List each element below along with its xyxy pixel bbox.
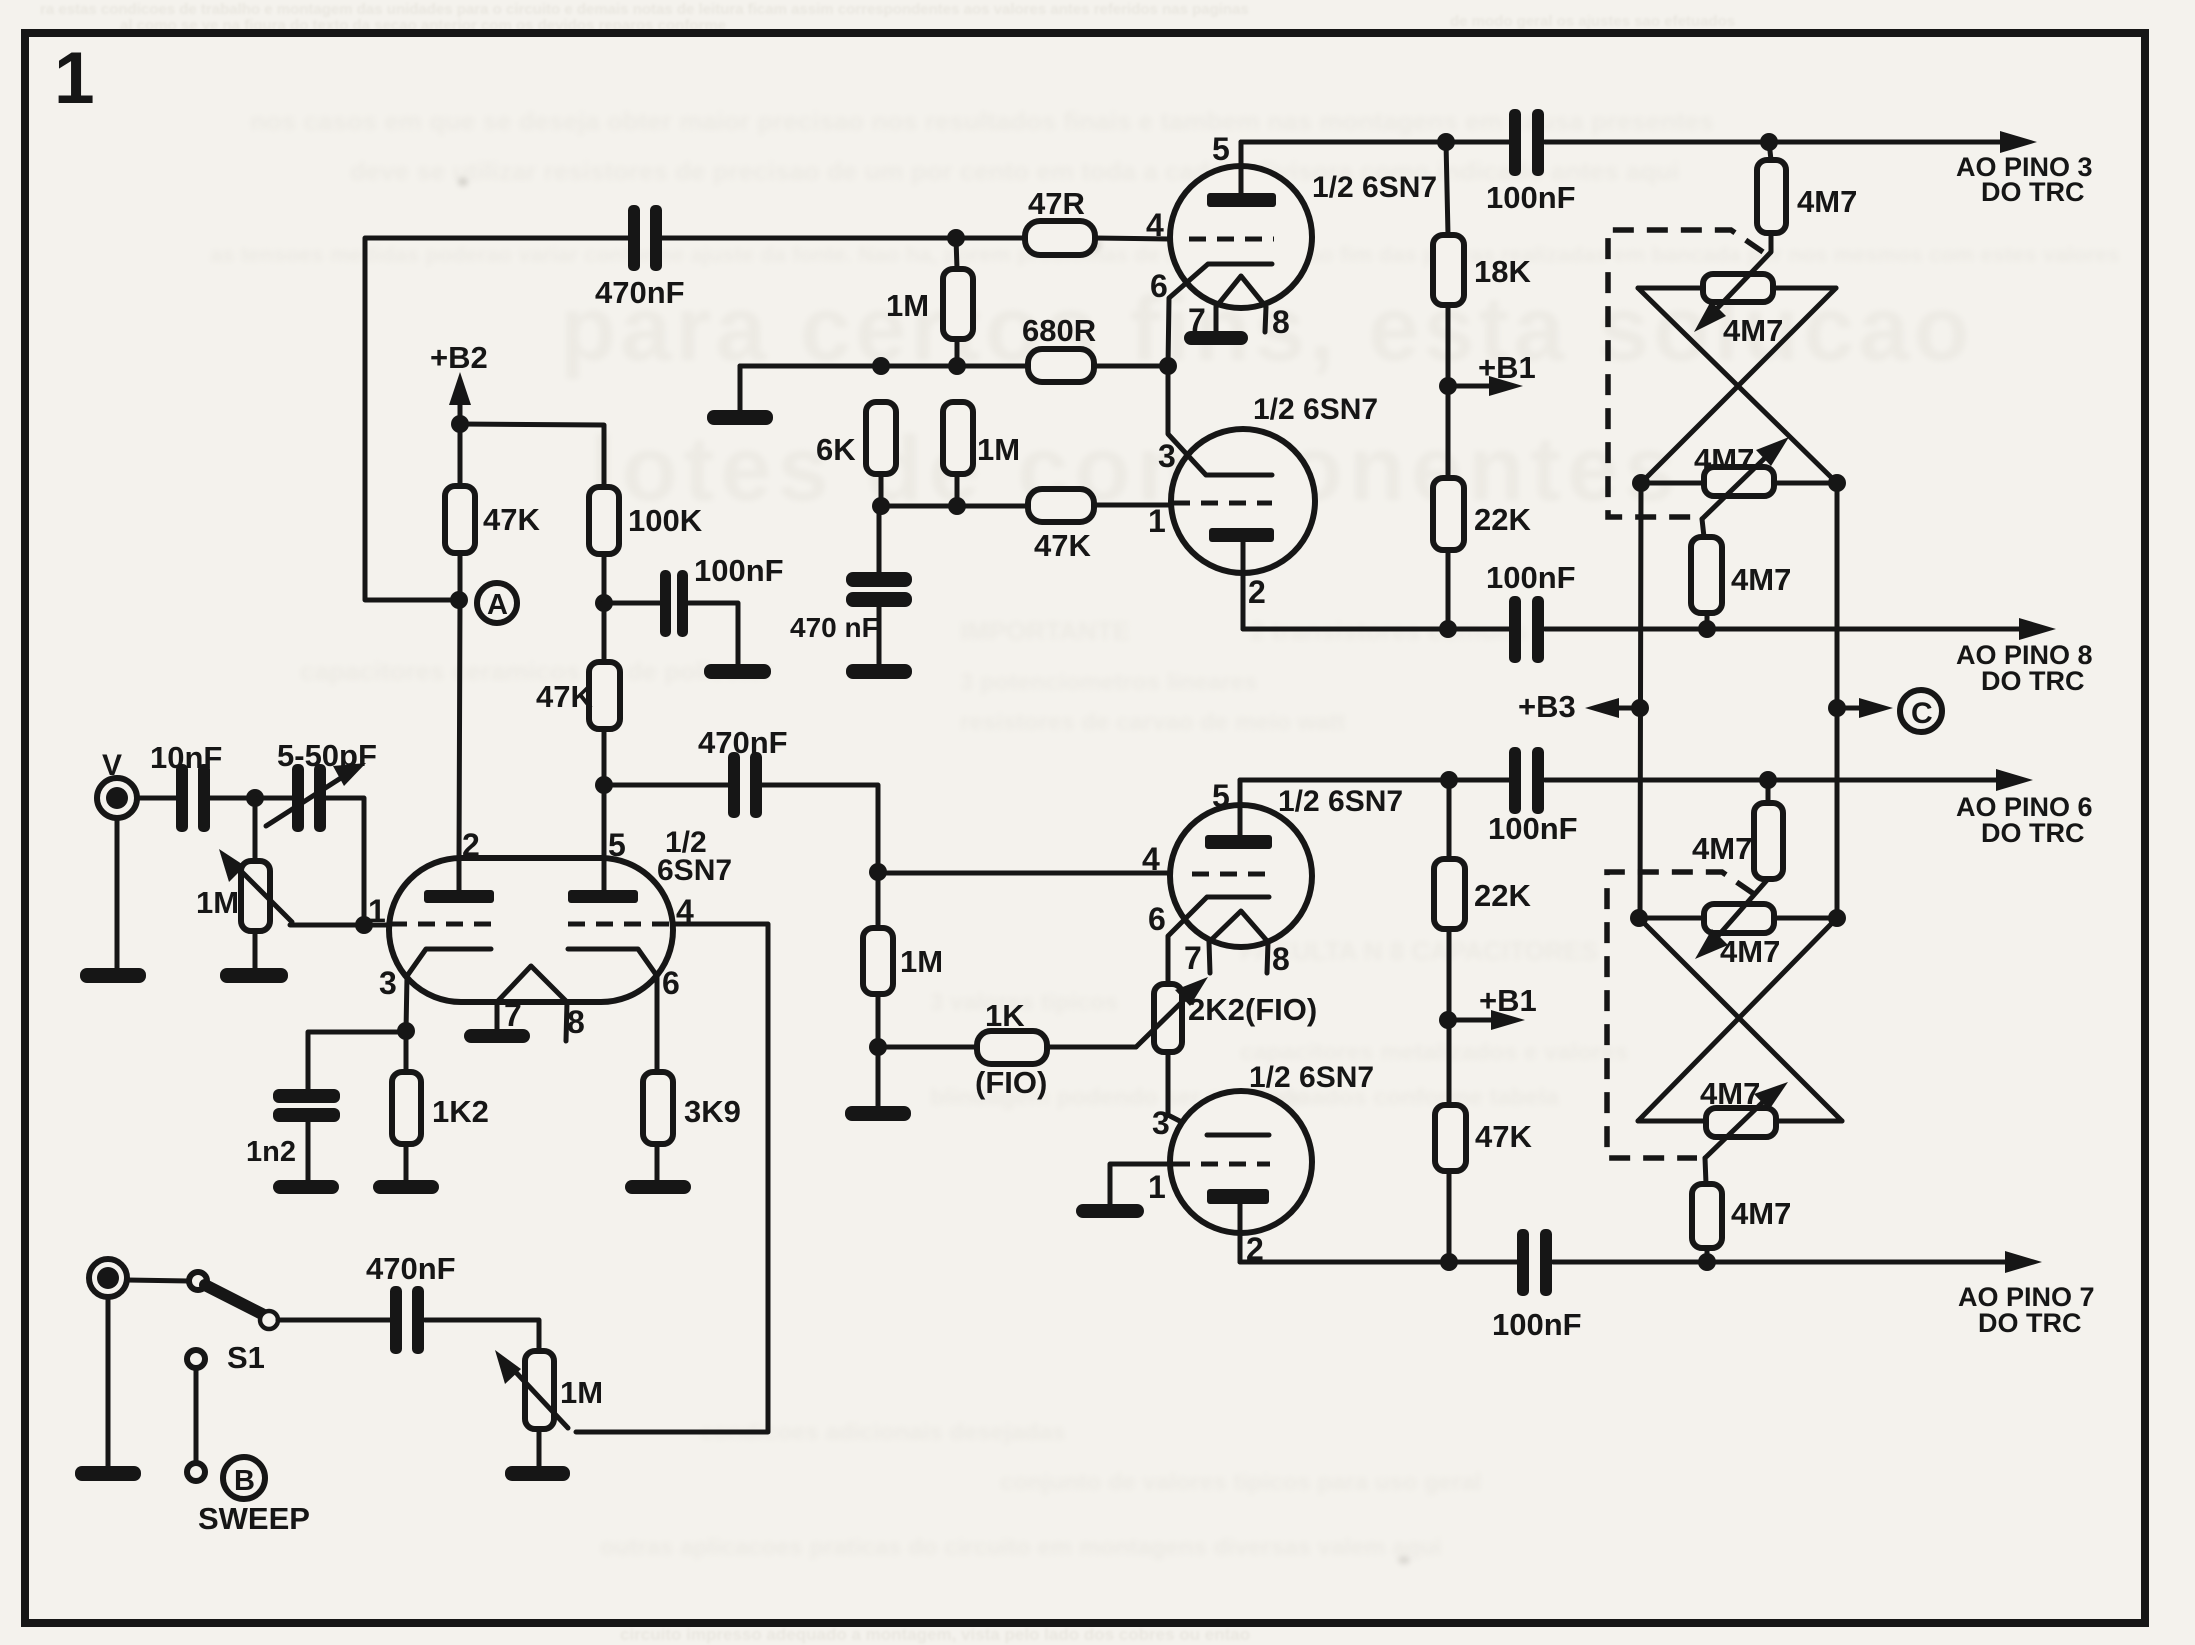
V1b grid (dashed): [1173, 501, 1272, 506]
wire: cap to output arrow pin6: [1545, 778, 1999, 783]
node junction X upper left: [1632, 474, 1650, 492]
svg-text:S1: S1: [227, 1340, 265, 1375]
svg-text:C: C: [1911, 697, 1933, 730]
wire: 22K to +B1 junction (lower): [1447, 929, 1452, 1020]
switch S1 lever: [205, 1285, 262, 1314]
V2a grid (dashed): [1192, 872, 1274, 877]
wire: 6K bottom lead: [879, 474, 884, 506]
wire: 1M bottom lead: [955, 474, 960, 506]
wire: connector to switch pivot: [127, 1280, 189, 1281]
node junction 4M7 bottom (upper network): [1698, 620, 1716, 638]
svg-text:100nF: 100nF: [1488, 811, 1578, 846]
wire: 1M to row junction: [955, 339, 960, 366]
wire: 1M upper lead: [956, 238, 957, 269]
V3 heater: [497, 966, 567, 1002]
ground (input pot): [220, 968, 288, 983]
node junction 470nF row: [595, 776, 613, 794]
connector V input: [97, 778, 137, 818]
node junction y506 left: [872, 497, 890, 515]
switch S1 moving contact: [260, 1311, 278, 1329]
node junction +B1 (upper): [1439, 377, 1457, 395]
wire: pin 4 feedback run: [576, 924, 768, 1432]
resistor 1K (F10): [977, 1031, 1047, 1064]
svg-text:6SN7: 6SN7: [657, 854, 732, 887]
node junction 18K top: [1437, 133, 1455, 151]
svg-text:100nF: 100nF: [1486, 560, 1576, 595]
wire: 22K to pin8 row: [1446, 550, 1451, 629]
svg-text:470nF: 470nF: [595, 275, 685, 310]
svg-text:SWEEP: SWEEP: [198, 1501, 310, 1536]
wire: 4M7 to pin7 row: [1705, 1248, 1710, 1262]
node junction grid branch: [355, 916, 373, 934]
V3 left grid (dashed): [390, 922, 497, 927]
wire: wiper corner to 4M7: [1705, 1158, 1706, 1184]
svg-text:outras aplicacoes praticas do: outras aplicacoes praticas do circuito e…: [600, 1534, 1442, 1561]
svg-text:5: 5: [608, 827, 626, 863]
wire: ground drop at x740: [738, 366, 743, 412]
node junction X lower right: [1828, 909, 1846, 927]
dashed gang link (lower): [1607, 872, 1754, 1158]
svg-text:2K2(FIO): 2K2(FIO): [1188, 992, 1317, 1027]
svg-text:47K: 47K: [1034, 528, 1091, 563]
node junction 22K bottom: [1439, 620, 1457, 638]
V1a pin 5 lead: [1239, 142, 1244, 193]
capacitor 100nF (pin6 output): [1509, 747, 1544, 814]
ground (V1a heater): [1184, 331, 1248, 345]
wire: cap to output arrow pin3: [1545, 140, 2004, 145]
resistor 4M7 (to pin7 row): [1692, 1184, 1722, 1248]
potentiometer 2K2 (F10) body: [1154, 984, 1182, 1052]
X network lower: crossing diagonals: [1639, 918, 1842, 1121]
svg-text:1/2 6SN7: 1/2 6SN7: [1312, 171, 1437, 204]
svg-text:7: 7: [1184, 940, 1202, 976]
svg-text:DO TRC: DO TRC: [1978, 1308, 2082, 1338]
svg-text:5-50pF: 5-50pF: [277, 738, 377, 773]
capacitor 470nF (top coupling): [628, 205, 662, 271]
svg-text:1M: 1M: [886, 288, 929, 323]
svg-text:3: 3: [1158, 438, 1176, 474]
svg-text:1/2 6SN7: 1/2 6SN7: [1253, 393, 1378, 426]
ground (SWEEP connector): [75, 1466, 141, 1481]
power +B1 arrow (upper): [1448, 384, 1492, 389]
resistor 22K (upper): [1433, 478, 1464, 550]
node junction 22K top (lower chain): [1440, 771, 1458, 789]
capacitor 100nF (pin8 output): [1509, 596, 1544, 663]
svg-text:6: 6: [1148, 901, 1166, 937]
resistor 47R: [1025, 221, 1095, 255]
V3 pin 7 lead: [495, 1002, 500, 1030]
wire: junction to 22K: [1446, 386, 1451, 478]
wire: left X column vertical: [1640, 483, 1641, 918]
svg-text:18K: 18K: [1474, 254, 1531, 289]
node junction X lower left: [1630, 909, 1648, 927]
wire: junction to 470nF cap: [604, 783, 729, 788]
svg-text:deve se utilizar resistores de: deve se utilizar resistores de precisao …: [350, 156, 1679, 186]
resistor 100K: [589, 487, 619, 554]
svg-text:1/2 6SN7: 1/2 6SN7: [1278, 785, 1403, 818]
wire: 1M pot top lead: [253, 798, 258, 861]
tube V3 6SN7 envelope (horizontal): [389, 858, 673, 1002]
node junction at 47R branch: [947, 229, 965, 247]
svg-text:1M: 1M: [900, 944, 943, 979]
node junction X upper right: [1828, 474, 1846, 492]
svg-text:6: 6: [662, 965, 680, 1001]
capacitor 1n2: [273, 1089, 340, 1122]
wire: trimmer to grid branch: [326, 798, 364, 925]
wire: 1M column to ground: [876, 1047, 881, 1107]
wire: 3K9 to ground: [655, 1144, 660, 1181]
svg-text:3: 3: [379, 965, 397, 1001]
wire: pot bottom to ground: [253, 931, 258, 969]
wire: junction to 1K: [878, 1045, 977, 1050]
X network upper: bottom bar: [1641, 481, 1837, 486]
resistor 680R: [1028, 349, 1094, 382]
svg-text:nos casos em que se deseja obt: nos casos em que se deseja obter maior p…: [250, 106, 1714, 136]
node junction tube3 grid row: [869, 863, 887, 881]
svg-text:+B2: +B2: [430, 340, 488, 375]
wire: output row pin8 (AO PINO 8): [1243, 627, 1509, 632]
V1b cathode: [1168, 366, 1272, 475]
svg-text:as tensoes medidas poderao var: as tensoes medidas poderao variar confor…: [210, 242, 2120, 267]
svg-text:1M: 1M: [196, 885, 239, 920]
node junction pin6/pin3 tie: [1159, 357, 1177, 375]
V2b pin 2 lead: [1238, 1204, 1243, 1262]
svg-text:DO TRC: DO TRC: [1981, 666, 2085, 696]
capacitor 100nF (decoupling A): [660, 570, 688, 637]
svg-text:circuito impresso adequado a m: circuito impresso adequado a montagem, v…: [620, 1625, 1250, 1644]
svg-text:1: 1: [54, 38, 95, 119]
ground (sweep pot): [505, 1466, 570, 1481]
wire: output row pin5 (AO PINO 3): [1241, 140, 1509, 145]
svg-text:conjunto de valores tipicos pa: conjunto de valores tipicos para uso ger…: [1000, 1469, 1481, 1496]
potentiometer 1M (input) body: [241, 861, 270, 931]
svg-text:resistores de carvao de meio w: resistores de carvao de meio watt: [960, 709, 1346, 736]
wire: wiper corner to 4M7: [1702, 519, 1704, 537]
svg-text:10nF: 10nF: [150, 740, 222, 775]
wire: junction to 1n2 branch: [308, 1032, 406, 1090]
node junction A: [450, 591, 468, 609]
resistor 18K: [1433, 235, 1464, 305]
svg-text:47K: 47K: [536, 679, 593, 714]
triode V2a 1/2 6SN7 envelope: [1170, 805, 1312, 947]
wire: pot bottom to ground: [537, 1429, 542, 1467]
V3 left anode plate: [424, 890, 494, 903]
svg-text:+B3: +B3: [1518, 689, 1576, 724]
V1b pin 2 lead: [1241, 542, 1246, 629]
svg-text:47K: 47K: [483, 502, 540, 537]
svg-text:4M7: 4M7: [1700, 1076, 1760, 1111]
wire: 47R to tube pin 4: [1095, 238, 1170, 239]
dashed gang link (upper): [1608, 230, 1763, 517]
resistor 47K (divider): [589, 662, 620, 729]
V2a pin 5 lead: [1238, 780, 1243, 835]
V2b grid (dashed): [1173, 1162, 1270, 1167]
V3 right cathode: [568, 949, 657, 1072]
wire: 2K2 to V2b cathode: [1168, 1052, 1207, 1135]
wire: 18K top lead: [1446, 142, 1448, 235]
wire: wiper row to tube pin 1: [290, 923, 389, 928]
svg-text:7: 7: [504, 997, 522, 1033]
svg-text:4M7: 4M7: [1720, 934, 1780, 969]
node junction y506 right: [948, 497, 966, 515]
wire: output row pin7 (AO PINO 7): [1240, 1260, 1518, 1265]
svg-text:1K: 1K: [985, 998, 1025, 1033]
V2a anode plate: [1205, 835, 1272, 849]
svg-text:+B1: +B1: [1479, 983, 1537, 1018]
X network upper: crossing diagonals: [1638, 288, 1837, 483]
switch S1 throw wire: [194, 1368, 199, 1463]
node A circle: [477, 583, 517, 623]
power +B3 arrow: [1615, 706, 1640, 711]
resistor 4M7 (to pin8 row): [1691, 537, 1722, 613]
wire: 18K to +B1 junction: [1446, 305, 1451, 386]
output arrow AO PINO 6: [1996, 769, 2033, 791]
V2a pin 8 lead: [1267, 942, 1268, 973]
svg-text:100nF: 100nF: [1486, 180, 1576, 215]
resistor 47K (lower): [1435, 1105, 1466, 1171]
V3 pin 2 inner lead: [457, 856, 462, 891]
svg-text:1M: 1M: [560, 1375, 603, 1410]
switch S1 lower contact a: [187, 1350, 205, 1368]
wire: 470nF to 1M column: [762, 785, 878, 872]
ground (1K2): [373, 1180, 439, 1194]
wire: SWEEP connector ground: [106, 1297, 111, 1467]
potentiometer 4M7 body (lower X bottom): [1706, 1108, 1776, 1137]
svg-text:5: 5: [1212, 131, 1230, 167]
svg-text:100nF: 100nF: [1492, 1307, 1582, 1342]
svg-text:6: 6: [1150, 268, 1168, 304]
svg-text:8: 8: [1272, 304, 1290, 340]
V3 pin 8 lead: [566, 1002, 567, 1041]
capacitor 100nF (pin7 output): [1517, 1229, 1552, 1296]
node junction 6K top: [872, 357, 890, 375]
svg-text:22K: 22K: [1474, 502, 1531, 537]
potentiometer 1M (sweep) wiper: [510, 1366, 568, 1428]
svg-text:de modo geral os ajustes sao e: de modo geral os ajustes sao efetuados: [1450, 13, 1735, 30]
svg-text:470nF: 470nF: [698, 725, 788, 760]
ground (V2b grid): [1076, 1204, 1144, 1218]
V2b anode plate: [1207, 1189, 1269, 1204]
svg-text:8: 8: [567, 1004, 585, 1040]
wire: cathode row y366: [740, 364, 1168, 369]
svg-text:680R: 680R: [1022, 313, 1096, 348]
svg-text:4M7: 4M7: [1731, 562, 1791, 597]
V2b cathode: [1207, 1133, 1269, 1138]
svg-text:22K: 22K: [1474, 878, 1531, 913]
wire: feedback loop left vertical and top run to coupling cap: [365, 238, 629, 600]
wire: right X column vertical: [1835, 483, 1840, 918]
node junction pin7 row: [1698, 1253, 1716, 1271]
triode V2b 1/2 6SN7 envelope: [1170, 1091, 1312, 1233]
node junction +B3: [1631, 699, 1649, 717]
node junction 100K/100nF: [595, 594, 613, 612]
V2a cathode: [1168, 897, 1269, 984]
resistor 1M (tube3 grid leak): [863, 928, 893, 994]
svg-text:4M7: 4M7: [1797, 184, 1857, 219]
wire: 10nF to trimmer: [210, 796, 293, 801]
V1a cathode: [1168, 264, 1272, 366]
node junction 47K bottom (lower chain): [1440, 1253, 1458, 1271]
wire: 1M third bottom lead: [876, 994, 881, 1047]
wire: 1K2 to ground: [404, 1144, 409, 1181]
ground (V connector): [80, 968, 146, 983]
node junction 4M7 top (lower network): [1759, 771, 1777, 789]
ground (100nF): [704, 664, 771, 679]
V1a pin 7 lead: [1214, 307, 1219, 331]
resistor 3K9: [643, 1072, 673, 1144]
V1a pin 8 lead: [1265, 307, 1266, 332]
wire: 100K bottom to junction: [602, 554, 607, 603]
wire: 100nF to ground: [688, 603, 738, 666]
node junction +B2: [451, 415, 469, 433]
svg-text:100K: 100K: [628, 503, 703, 538]
power +B2 arrow: [458, 400, 463, 424]
resistor 1M (grid leak upper): [943, 269, 973, 339]
node B circle: [223, 1457, 265, 1499]
wire: V to 10nF: [137, 796, 177, 801]
potentiometer 4M7 body (lower X top): [1704, 904, 1774, 933]
V1b anode plate: [1209, 528, 1274, 542]
wire: cap to output arrow pin8: [1545, 627, 2022, 632]
wire: bottom row y506 to 47K: [881, 504, 1028, 509]
node junction 1M top: [948, 357, 966, 375]
wire: 47K to pin7 row: [1447, 1171, 1452, 1262]
V3 left cathode: [406, 949, 491, 1031]
node junction 4M7 top: [1760, 133, 1778, 151]
switch S1 lower contact b: [187, 1463, 205, 1481]
svg-text:DO TRC: DO TRC: [1981, 818, 2085, 848]
capacitor 470nF (cathode decoupling, horizontal plates): [846, 572, 912, 607]
V2b grid ground wire: [1110, 1164, 1171, 1205]
svg-text:4M7: 4M7: [1731, 1196, 1791, 1231]
ground (470nF decoupling): [846, 664, 912, 679]
V3 right grid (dashed): [568, 922, 672, 927]
svg-text:1M: 1M: [977, 432, 1020, 467]
svg-text:3 potenciometros lineares: 3 potenciometros lineares: [960, 669, 1257, 696]
wire: cap to output arrow pin7: [1553, 1260, 2008, 1265]
resistor 1K2: [392, 1072, 421, 1144]
capacitor trimmer 5-50pF: [292, 764, 326, 832]
resistor 47K (plate load A): [445, 486, 475, 553]
capacitor 10nF: [176, 764, 210, 832]
wire: 47K anode lead: [458, 424, 463, 486]
capacitor 470nF (interstage to tube3): [728, 752, 762, 818]
svg-text:A: A: [487, 589, 508, 621]
svg-text:(FIO): (FIO): [975, 1065, 1047, 1100]
connector SWEEP input: [89, 1259, 127, 1297]
V1a heater: [1216, 276, 1266, 307]
resistor 4M7 (series pin3): [1769, 142, 1771, 160]
svg-text:+B1: +B1: [1478, 350, 1536, 385]
potentiometer wiper (lower X bottom): [1705, 1100, 1765, 1158]
wire: 470nF decoupling to ground: [877, 607, 882, 665]
wire: 1M third top lead: [876, 872, 881, 928]
capacitor 100nF (pin3 output): [1509, 109, 1544, 176]
resistor 47K (grid row): [1028, 489, 1094, 522]
node C circle: [1900, 690, 1942, 732]
potentiometer wiper (upper X top) from 4M7 lead: [1708, 233, 1771, 318]
svg-text:4: 4: [1146, 207, 1164, 243]
wire: 1K to 2K2 wiper: [1047, 1045, 1136, 1050]
V2a pin 7 lead: [1209, 942, 1210, 973]
resistor 4M7 (series pin6): [1766, 780, 1771, 803]
wire: 1n2 to ground: [306, 1122, 311, 1181]
node C arrow: [1837, 706, 1862, 711]
svg-text:1: 1: [1148, 503, 1166, 539]
svg-text:2: 2: [462, 827, 480, 863]
wire: +B2 junction over to 100K: [460, 424, 604, 487]
svg-text:DO TRC: DO TRC: [1981, 177, 2085, 207]
V1a grid (dashed): [1189, 237, 1274, 242]
potentiometer 4M7 body (upper X bottom): [1704, 467, 1774, 496]
potentiometer 1M (sweep) body: [525, 1351, 554, 1429]
wire: output row pin6 (AO PINO 6): [1240, 778, 1509, 783]
svg-text:2: 2: [1248, 574, 1266, 610]
resistor 22K (lower): [1434, 859, 1465, 929]
svg-text:1n2: 1n2: [246, 1136, 296, 1168]
potentiometer 2K2 wiper: [1136, 996, 1188, 1047]
trimmer arrow 5-50pF: [266, 776, 344, 826]
wire: junction to 47K (lower): [1447, 1020, 1452, 1105]
wire: 47K second top lead: [602, 603, 607, 662]
capacitor 470nF (sweep): [390, 1286, 424, 1354]
svg-text:1K2: 1K2: [432, 1094, 489, 1129]
svg-text:IMPORTANTE: IMPORTANTE: [960, 616, 1130, 646]
wire: 47K to tube2 pin 1: [1094, 503, 1171, 508]
V3 right anode plate: [568, 890, 638, 903]
X network upper: top bar: [1638, 286, 1836, 291]
potentiometer 4M7 body (upper X top): [1703, 274, 1773, 302]
power +B1 arrow (lower): [1448, 1018, 1492, 1023]
output arrow AO PINO 3: [2000, 131, 2037, 153]
svg-text:B: B: [234, 1465, 255, 1497]
node junction 1M pot top: [246, 789, 264, 807]
node junction +B1 (lower): [1439, 1011, 1457, 1029]
svg-text:1: 1: [1148, 1169, 1166, 1205]
potentiometer 1M (input) wiper: [234, 864, 292, 922]
ground (V3 heater): [464, 1029, 530, 1043]
X network lower: top bar: [1639, 916, 1837, 921]
output arrow AO PINO 7: [2005, 1251, 2042, 1273]
wire: 47K to node A and down to tube pin 2: [459, 553, 460, 860]
node junction C: [1828, 699, 1846, 717]
X network lower: bottom bar: [1638, 1119, 1842, 1124]
wire: 470nF to 1M pot: [425, 1320, 539, 1351]
svg-text:47K: 47K: [1475, 1119, 1532, 1154]
wire: V connector to ground: [115, 818, 120, 969]
svg-text:4M7: 4M7: [1723, 313, 1783, 348]
svg-text:FACULTA N 8 CAPACITORES: FACULTA N 8 CAPACITORES: [1240, 936, 1598, 966]
wire: 470nF decoupling top lead: [877, 506, 882, 573]
triode V1b 1/2 6SN7 envelope: [1171, 429, 1315, 573]
switch S1 pivot contact: [189, 1272, 207, 1290]
node junction cathode/1n2: [397, 1022, 415, 1040]
V1a anode plate: [1207, 193, 1276, 207]
V3 pin 5 inner lead: [602, 856, 607, 891]
svg-text:6K: 6K: [816, 432, 856, 467]
svg-text:47R: 47R: [1028, 186, 1085, 221]
triode V1a 1/2 6SN7 envelope: [1170, 166, 1312, 308]
ground (row y366): [707, 410, 773, 425]
node junction 1K row: [869, 1038, 887, 1056]
output arrow AO PINO 8: [2019, 618, 2056, 640]
svg-text:470nF: 470nF: [366, 1251, 456, 1286]
svg-text:100nF: 100nF: [694, 553, 784, 588]
svg-text:1/2 6SN7: 1/2 6SN7: [1249, 1061, 1374, 1094]
wire: cap to 47R: [662, 236, 1025, 241]
wire: grid row to tube3 pin 4: [878, 871, 1170, 876]
svg-text:1: 1: [368, 893, 386, 929]
